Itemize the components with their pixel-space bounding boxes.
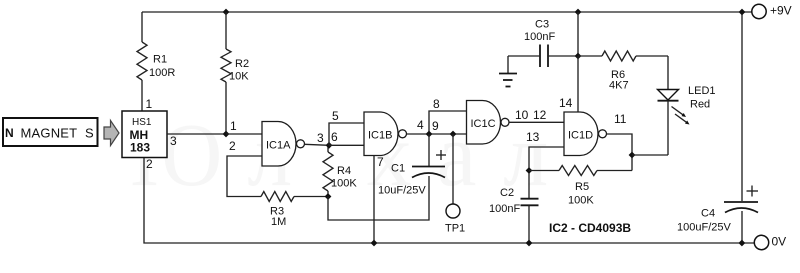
svg-text:8: 8 xyxy=(433,97,440,111)
magnet arrow xyxy=(104,121,119,146)
wire pin14 xyxy=(577,56,579,112)
wire IC1B output pin4 to IC1C pin9 xyxy=(407,133,467,135)
capacitor C1 xyxy=(378,150,446,197)
wire IC1D output pin11 xyxy=(607,134,633,171)
resistor R4 xyxy=(323,146,357,197)
node junction C3/R6/pin14 xyxy=(575,53,582,60)
wire node to LED cathode xyxy=(632,154,668,156)
svg-text:TP1: TP1 xyxy=(445,223,465,235)
magnet box xyxy=(3,118,98,146)
wire pin8 branch xyxy=(429,111,467,134)
svg-text:100K: 100K xyxy=(331,178,357,190)
wire IC1A pin2 feedback to R3 xyxy=(227,156,262,197)
svg-text:R4: R4 xyxy=(337,165,351,177)
svg-text:10uF/25V: 10uF/25V xyxy=(378,185,426,197)
svg-text:C2: C2 xyxy=(500,187,514,199)
svg-text:2: 2 xyxy=(229,139,236,153)
node junction LED/out xyxy=(629,152,636,159)
node junction top R2 xyxy=(223,9,230,16)
svg-text:R2: R2 xyxy=(235,58,249,70)
svg-text:14: 14 xyxy=(559,96,573,110)
svg-text:12: 12 xyxy=(533,108,547,122)
svg-text:1: 1 xyxy=(146,97,153,111)
svg-text:IC1D: IC1D xyxy=(568,130,593,142)
svg-text:IC1B: IC1B xyxy=(368,130,392,142)
svg-text:10K: 10K xyxy=(229,71,249,83)
svg-text:HS1: HS1 xyxy=(132,117,152,128)
capacitor C3 xyxy=(508,19,578,68)
svg-text:183: 183 xyxy=(130,141,150,155)
svg-text:IC1A: IC1A xyxy=(266,140,291,152)
svg-text:3: 3 xyxy=(170,134,177,148)
hall sensor HS1 MH183 xyxy=(122,111,167,158)
svg-text:1M: 1M xyxy=(271,216,286,228)
svg-text:3: 3 xyxy=(317,131,324,145)
svg-text:Red: Red xyxy=(690,99,710,111)
ground xyxy=(499,56,517,87)
wire node 3/6 to IC1B pin5 xyxy=(329,123,364,145)
svg-text:4K7: 4K7 xyxy=(609,80,629,92)
resistor R5 xyxy=(529,166,632,207)
LED1 xyxy=(658,56,716,155)
svg-text:0V: 0V xyxy=(772,235,787,249)
svg-text:IC2 - CD4093B: IC2 - CD4093B xyxy=(549,221,631,235)
svg-text:5: 5 xyxy=(332,109,339,123)
capacitor C4 xyxy=(677,186,758,234)
svg-text:C3: C3 xyxy=(535,19,549,31)
wire top rail to C3 node xyxy=(577,12,579,56)
wire IC1B pin7 to 0V rail xyxy=(373,156,375,244)
wire IC1D pin13 xyxy=(529,147,564,199)
svg-text:100nF: 100nF xyxy=(489,203,520,215)
node junction R5/C2 xyxy=(526,167,533,174)
svg-text:N: N xyxy=(5,126,14,140)
svg-text:2: 2 xyxy=(146,157,153,171)
svg-text:11: 11 xyxy=(614,112,627,126)
capacitor C2 xyxy=(489,187,539,243)
svg-text:MAGNET: MAGNET xyxy=(21,126,78,141)
svg-text:100K: 100K xyxy=(568,195,594,207)
svg-text:R1: R1 xyxy=(153,54,167,66)
resistor R1 xyxy=(137,12,175,111)
svg-text:9: 9 xyxy=(432,119,439,133)
wire node 3/6 to IC1B pin6 xyxy=(329,144,364,146)
resistor R3 xyxy=(261,192,328,229)
op IC1C nand gate xyxy=(467,101,510,145)
terminal 0V xyxy=(754,235,786,250)
svg-text:R5: R5 xyxy=(575,181,589,193)
op IC1B nand gate xyxy=(364,112,407,156)
svg-text:7: 7 xyxy=(377,155,384,169)
resistor R2 xyxy=(221,12,249,134)
node junction top C3 branch xyxy=(575,9,582,16)
svg-text:LED1: LED1 xyxy=(688,85,716,97)
op IC1D nand gate xyxy=(564,112,607,156)
wire bottom 0V rail xyxy=(144,158,755,244)
svg-text:C1: C1 xyxy=(391,163,405,175)
svg-text:100R: 100R xyxy=(149,67,175,79)
svg-text:4: 4 xyxy=(417,118,424,132)
svg-text:100uF/25V: 100uF/25V xyxy=(677,222,731,234)
resistor R6 xyxy=(578,51,668,92)
node junction TP1 xyxy=(450,131,457,138)
svg-text:S: S xyxy=(85,126,94,141)
op IC1A nand gate xyxy=(262,122,305,167)
node junction pin1/IC1A xyxy=(223,131,230,138)
svg-text:IC1C: IC1C xyxy=(471,118,496,130)
wire IC1A output to node 3/6 xyxy=(305,144,330,145)
node junction R3/R4 xyxy=(325,193,332,200)
wire right supply branch down to C4 xyxy=(741,12,743,201)
wire down to C1 xyxy=(428,134,430,166)
wire R3/R4 node to C1 bottom xyxy=(328,176,429,220)
svg-text:C4: C4 xyxy=(701,208,715,220)
svg-text:10: 10 xyxy=(515,108,529,122)
node junction C1/pin8 xyxy=(426,131,433,138)
wire top supply rail xyxy=(142,11,752,13)
svg-text:100nF: 100nF xyxy=(524,31,555,43)
svg-text:+9V: +9V xyxy=(770,4,792,18)
node junction top right C4 branch xyxy=(739,9,746,16)
test point TP1 xyxy=(445,134,465,235)
terminal +9V xyxy=(752,4,792,19)
svg-text:6: 6 xyxy=(331,130,338,144)
svg-text:13: 13 xyxy=(526,130,540,144)
wire hall pin3 to node xyxy=(167,133,226,135)
svg-text:1: 1 xyxy=(230,119,237,133)
wire IC1C output pin10 to IC1D pin12 xyxy=(509,121,564,123)
wire node to IC1A pin1 xyxy=(226,133,262,135)
node junction 3/6 xyxy=(326,142,333,149)
